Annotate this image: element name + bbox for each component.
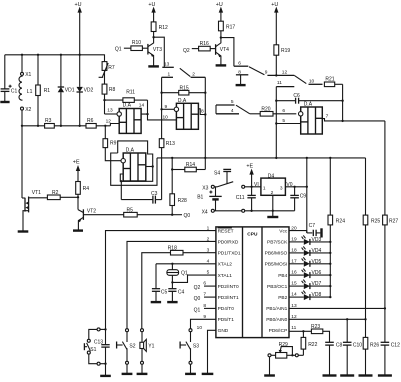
LED VD3: [289, 235, 331, 245]
wire Vcc column: [306, 158, 308, 233]
ground R29: [264, 374, 275, 376]
wire gate1 output to gate2 input: [141, 113, 176, 120]
svg-text:10: 10: [163, 115, 169, 121]
+U supply arrow (left): [75, 2, 82, 55]
wire gate3 feedback loop outer: [111, 141, 157, 185]
svg-text:C9: C9: [300, 193, 307, 199]
svg-text:11: 11: [291, 325, 296, 331]
switch S2: [117, 329, 136, 374]
svg-text:GND: GND: [218, 328, 229, 334]
svg-text:R23: R23: [311, 324, 320, 330]
svg-text:R12: R12: [159, 25, 168, 31]
diode VD2: [77, 55, 94, 126]
potentiometer R29: [268, 342, 303, 376]
svg-text:VT1: VT1: [32, 190, 41, 196]
resistor R20: [250, 106, 296, 116]
svg-text:13: 13: [107, 108, 113, 114]
capacitor C9: [290, 187, 306, 211]
resistor R4: [76, 182, 90, 198]
svg-text:10: 10: [309, 78, 315, 84]
svg-text:X2: X2: [25, 107, 31, 113]
capacitor C3: [120, 180, 162, 204]
svg-text:R6: R6: [87, 118, 94, 124]
svg-text:C1: C1: [11, 88, 18, 94]
battery B1: [197, 187, 222, 211]
resistor R2: [47, 190, 79, 200]
svg-text:10: 10: [197, 325, 203, 331]
svg-text:PD5/T1: PD5/T1: [218, 317, 235, 323]
svg-text:PD0/RXD: PD0/RXD: [218, 240, 239, 246]
svg-text:PB5/MOSI: PB5/MOSI: [265, 262, 288, 268]
svg-text:R28: R28: [178, 198, 187, 204]
+E supply arrow (R4): [73, 160, 80, 182]
+U supply arrow (R17): [216, 2, 223, 21]
svg-text:+E: +E: [73, 160, 80, 166]
svg-text:C4: C4: [178, 289, 185, 295]
svg-text:C8: C8: [336, 342, 343, 348]
svg-text:R26: R26: [370, 342, 379, 348]
svg-text:8: 8: [201, 108, 204, 114]
node Q2 stub pin6: [194, 285, 216, 291]
svg-text:PB0/AIN0: PB0/AIN0: [266, 317, 287, 323]
ground S1: [100, 375, 111, 377]
svg-text:Q0: Q0: [194, 296, 201, 302]
svg-text:7: 7: [326, 114, 329, 120]
svg-text:VI: VI: [254, 182, 259, 188]
ground S2: [122, 373, 133, 375]
wire V0 output: [285, 186, 308, 188]
svg-text:S3: S3: [193, 344, 199, 350]
ground VT4: [216, 64, 227, 66]
svg-text:+U: +U: [148, 2, 155, 8]
CPU U5 box: [216, 227, 289, 338]
inductor L1: [19, 75, 33, 100]
svg-text:VD5: VD5: [312, 259, 322, 265]
wire pin9 to S3: [191, 319, 216, 328]
svg-text:VD7: VD7: [312, 281, 322, 287]
wire lower bus: [21, 124, 119, 128]
switch contact 11: [275, 80, 294, 158]
svg-text:13: 13: [164, 62, 170, 68]
wire pin12 row: [289, 318, 367, 320]
svg-text:X1: X1: [25, 72, 31, 78]
capacitor C6: [276, 93, 342, 104]
resistor R1: [36, 55, 51, 126]
svg-text:C6: C6: [293, 93, 300, 99]
LED VD5: [289, 257, 331, 267]
svg-text:12: 12: [106, 119, 112, 125]
transistor VT1: [22, 126, 47, 232]
switch S3: [180, 329, 199, 374]
svg-text:R1: R1: [44, 88, 51, 94]
ground VT2: [73, 229, 83, 231]
svg-text:PD6/ICP: PD6/ICP: [269, 328, 288, 334]
node X3: [202, 185, 217, 191]
LED VD8: [289, 291, 331, 301]
svg-text:C5: C5: [161, 289, 168, 295]
svg-text:R22: R22: [308, 342, 317, 348]
svg-text:C11: C11: [236, 195, 245, 201]
resistor R27: [383, 121, 399, 342]
switch contacts 9 and 12: [265, 70, 307, 84]
wire pin4 XTAL2: [156, 263, 216, 265]
node Q0 stub pin7: [194, 296, 216, 302]
svg-text:PB1/AIN1: PB1/AIN1: [266, 306, 287, 312]
resistor R15: [160, 86, 206, 95]
resistor R25: [363, 158, 380, 338]
svg-text:X4: X4: [202, 209, 208, 215]
transistor VT2: [78, 197, 124, 230]
svg-text:2: 2: [271, 190, 274, 196]
capacitor C12: [378, 342, 400, 375]
wire gate3 output: [146, 165, 154, 167]
voltage regulator D4: [254, 173, 293, 212]
svg-text:PD1/TXD1: PD1/TXD1: [218, 251, 241, 257]
resistor R18 on pin3: [142, 245, 216, 328]
svg-text:PB2: PB2: [278, 295, 287, 301]
svg-text:4: 4: [231, 108, 234, 114]
svg-text:S2: S2: [129, 344, 135, 350]
resistor R28: [170, 194, 187, 216]
svg-text:R10: R10: [132, 40, 141, 46]
node X4: [202, 209, 295, 215]
svg-text:PB4: PB4: [278, 273, 287, 279]
switch contacts 5 and 4: [216, 99, 250, 114]
resistor R22: [301, 331, 317, 355]
svg-text:Q1: Q1: [194, 307, 201, 313]
svg-text:6: 6: [238, 60, 241, 66]
resistor R8: [102, 84, 117, 114]
switch contact 8 grounded: [236, 69, 249, 85]
capacitor C1: [0, 55, 17, 102]
svg-text:PB7/SCK: PB7/SCK: [267, 240, 288, 246]
wire Q1 to XTAL1 pin5: [172, 275, 216, 282]
capacitor C13: [94, 329, 110, 376]
ground S3: [185, 373, 196, 375]
svg-text:R13: R13: [166, 141, 175, 147]
svg-text:Vcc: Vcc: [279, 229, 288, 235]
capacitor C11: [236, 187, 256, 212]
wire top bus: [5, 54, 104, 56]
svg-text:1: 1: [168, 72, 171, 78]
svg-text:9: 9: [265, 70, 268, 76]
resistor R9: [103, 126, 121, 161]
svg-text:VD8: VD8: [312, 292, 322, 298]
svg-text:3: 3: [280, 186, 283, 192]
svg-text:PB3/OC1: PB3/OC1: [267, 284, 288, 290]
svg-text:VD4: VD4: [312, 248, 322, 254]
wire Vcc pin 20: [289, 231, 307, 233]
resistor R7 (trimmer): [99, 55, 115, 84]
svg-text:S4: S4: [214, 170, 220, 176]
svg-text:R27: R27: [389, 219, 398, 225]
svg-text:5: 5: [231, 99, 234, 105]
CPU left pin labels: [218, 228, 241, 334]
resistor R17: [219, 21, 236, 39]
svg-text:8: 8: [238, 69, 241, 75]
svg-text:R3: R3: [45, 118, 52, 124]
capacitor C7: [307, 223, 322, 237]
svg-text:PB6/MISO: PB6/MISO: [265, 251, 288, 257]
svg-text:XTAL2: XTAL2: [218, 262, 233, 268]
svg-text:2: 2: [192, 72, 195, 78]
svg-text:R20: R20: [261, 106, 270, 112]
wire pin1 to S1: [106, 231, 216, 329]
switch contact 13: [162, 62, 190, 77]
capacitor C10: [340, 319, 362, 375]
svg-text:Q1: Q1: [181, 271, 188, 277]
svg-text:R24: R24: [336, 219, 345, 225]
svg-text:R5: R5: [127, 207, 134, 213]
svg-text:B1: B1: [197, 195, 203, 201]
node X2: [21, 107, 32, 126]
capacitor C4: [167, 282, 184, 302]
capacitor C5: [151, 264, 168, 302]
capacitor C8: [323, 342, 343, 375]
resistor R6: [86, 118, 96, 128]
svg-text:C3: C3: [151, 191, 158, 197]
svg-text:+U: +U: [271, 2, 278, 8]
svg-text:Q1: Q1: [115, 47, 122, 53]
svg-text:VD3: VD3: [312, 237, 322, 243]
svg-text:+E: +E: [246, 163, 253, 169]
switch S4: [214, 169, 261, 188]
+E supply arrow (C11): [246, 163, 253, 188]
node Q0: [172, 213, 190, 219]
wire gate4 output 7: [322, 114, 385, 121]
LED VD4: [289, 246, 331, 256]
op-amp U4 gate DA4: [299, 101, 323, 134]
switch S1 with C13: [84, 328, 106, 365]
svg-text:12: 12: [282, 70, 288, 76]
diode VD1: [58, 55, 75, 126]
CPU right pin labels: [265, 229, 288, 335]
svg-text:VT2: VT2: [87, 208, 96, 214]
svg-text:C10: C10: [353, 342, 362, 348]
svg-text:VD1: VD1: [65, 87, 75, 93]
svg-text:PD4/T0: PD4/T0: [218, 306, 235, 312]
svg-text:Q2: Q2: [194, 285, 201, 291]
svg-text:5: 5: [282, 118, 285, 124]
crystal Q1: [167, 264, 188, 284]
switch contact 10: [309, 78, 323, 84]
resistor R5: [124, 207, 174, 217]
svg-text:Q0: Q0: [184, 213, 191, 219]
ground VT1: [18, 230, 29, 232]
+U supply arrow (R12): [148, 2, 155, 22]
+U supply arrow (R19): [271, 2, 278, 45]
wire collector to contact 6: [221, 38, 234, 67]
svg-text:R17: R17: [226, 24, 235, 30]
resistor R11: [105, 90, 148, 115]
wire gate2 input 9: [160, 104, 174, 121]
svg-text:6: 6: [282, 108, 285, 114]
resistor R14: [171, 158, 205, 194]
svg-text:VD6: VD6: [312, 270, 322, 276]
svg-text:VT4: VT4: [220, 47, 229, 53]
svg-text:R4: R4: [83, 186, 90, 192]
resistor R21: [324, 77, 343, 122]
svg-text:CPU: CPU: [247, 232, 258, 238]
transistor VT4: [183, 38, 229, 65]
svg-text:D.A: D.A: [126, 148, 135, 154]
LED VD7: [289, 280, 331, 290]
buzzer Y1: [140, 329, 155, 374]
resistor R19: [274, 45, 290, 77]
svg-text:R25: R25: [371, 219, 380, 225]
svg-text:R19: R19: [281, 48, 290, 54]
svg-text:L1: L1: [27, 89, 33, 95]
svg-text:VD2: VD2: [84, 87, 94, 93]
wire gate4 input 5: [276, 118, 300, 124]
svg-text:+U: +U: [216, 2, 223, 8]
svg-text:D.A: D.A: [178, 98, 187, 104]
svg-text:D.A: D.A: [123, 103, 132, 109]
svg-text:X3: X3: [202, 185, 208, 191]
CPU left pin numbers: [197, 225, 210, 331]
svg-text:RESET: RESET: [218, 229, 234, 235]
LED VD6: [289, 269, 331, 279]
wire collector to contact 13: [154, 37, 165, 67]
svg-text:R2: R2: [52, 190, 59, 196]
CPU right pin numbers: [291, 225, 297, 331]
svg-text:PD2/INT0: PD2/INT0: [218, 284, 239, 290]
op-amp U1 gate DA1: [117, 103, 141, 134]
resistor R12: [151, 22, 168, 39]
svg-text:PD3/INT1: PD3/INT1: [218, 295, 239, 301]
op-amp U3 gate DA3: [121, 148, 146, 181]
wire pin13 row: [289, 307, 386, 309]
resistor R23: [289, 324, 330, 342]
wire main bus: [157, 157, 366, 159]
svg-text:14: 14: [139, 102, 145, 108]
svg-text:R8: R8: [109, 87, 116, 93]
svg-text:R21: R21: [325, 77, 334, 83]
resistor R3: [45, 118, 55, 128]
wire gate2 output 8: [198, 108, 206, 115]
svg-text:1: 1: [263, 186, 266, 192]
op-amp U2 gate DA2: [174, 98, 198, 130]
svg-text:R15: R15: [180, 86, 189, 92]
svg-text:R14: R14: [186, 162, 195, 168]
node X1: [21, 55, 32, 78]
svg-text:D4: D4: [268, 173, 275, 179]
svg-text:R16: R16: [200, 41, 209, 47]
resistor R24: [328, 158, 345, 297]
transistor Q? VT3: [115, 37, 162, 66]
switch contact 6: [234, 60, 265, 74]
svg-text:R9: R9: [110, 140, 117, 146]
wire pin10 GND: [202, 330, 216, 374]
svg-text:R11: R11: [126, 90, 135, 96]
svg-text:D.A: D.A: [304, 101, 313, 107]
svg-text:XTAL1: XTAL1: [218, 273, 233, 279]
svg-text:Y1: Y1: [148, 344, 154, 350]
svg-text:R7: R7: [108, 65, 115, 71]
resistor R13: [159, 139, 175, 200]
svg-text:S1: S1: [90, 347, 96, 353]
node Q1 stub pin8: [194, 307, 216, 313]
svg-text:+U: +U: [75, 2, 82, 8]
svg-text:C7: C7: [309, 223, 316, 229]
ground Y1: [137, 373, 148, 375]
switch contact 2: [191, 72, 206, 170]
switch contact 1: [162, 72, 173, 139]
wire pin2 to S2: [127, 241, 216, 328]
svg-text:VT3: VT3: [153, 47, 162, 53]
resistor R26: [359, 337, 380, 375]
svg-text:R18: R18: [168, 245, 177, 251]
ground regulator: [267, 211, 278, 217]
svg-text:C12: C12: [391, 342, 400, 348]
ground VT3: [148, 65, 159, 67]
svg-text:9: 9: [165, 104, 168, 110]
svg-text:11: 11: [277, 80, 282, 86]
svg-text:Q2: Q2: [183, 48, 190, 54]
